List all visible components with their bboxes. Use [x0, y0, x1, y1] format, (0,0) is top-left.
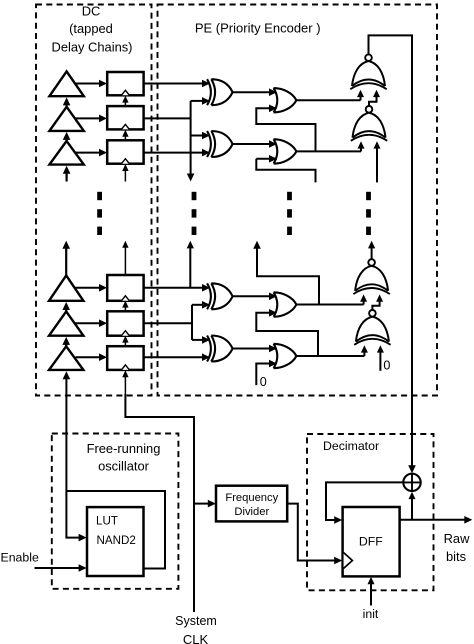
wire N3 output up to continuation — [368, 241, 375, 259]
svg-text:System: System — [175, 614, 217, 628]
label DC block title — [52, 3, 133, 54]
wire N1 output to decimator xor combiner — [369, 35, 416, 473]
ellipsis continuation dots column 1 (delay chain) — [97, 192, 102, 235]
wire tap D4 to R4 — [76, 284, 108, 292]
label System CLK net — [175, 614, 217, 644]
wire O2 output to N2 input A — [296, 141, 364, 151]
xnor gate N3 — [353, 259, 389, 294]
label Decimator — [323, 439, 379, 453]
wire clock R5 to R4 — [122, 301, 128, 312]
flip-flop register R5 — [107, 311, 143, 335]
wire R1 output to X1 input A — [144, 80, 210, 88]
block PE (priority encoder) dashed box — [158, 5, 438, 396]
wire X1 output to O1 input A — [233, 88, 277, 96]
label LUT NAND2 — [96, 514, 136, 547]
svg-text:DFF: DFF — [359, 534, 383, 548]
xor gate X1 — [207, 79, 233, 105]
wire X2 output to O2 input A — [233, 140, 277, 148]
wire tap D2 to R2 — [76, 115, 108, 123]
buffer D6 (delay element) — [49, 346, 83, 370]
wire D4 output up to continuation — [62, 241, 70, 276]
clock marker on DFF — [344, 553, 353, 569]
or gate O2 — [274, 139, 297, 163]
xnor gate N2 — [351, 106, 387, 141]
svg-text:Frequency: Frequency — [225, 492, 278, 504]
flip-flop register R4 — [107, 275, 143, 301]
wire input to D3 from below (continuation) — [63, 166, 71, 182]
xor gate X3 — [207, 283, 233, 309]
wire N4 output to N3 input B — [372, 294, 383, 310]
buffer D5 (delay element) — [49, 311, 83, 335]
svg-text:init: init — [363, 607, 379, 621]
svg-text:Decimator: Decimator — [323, 439, 379, 453]
wire D2 output to D1 input — [63, 97, 71, 106]
wire R3 output to X2 input B — [144, 149, 210, 157]
ellipsis continuation dots column 3 (or chain) — [287, 192, 292, 235]
or gate O4 — [274, 344, 297, 368]
xor gate X4 — [207, 336, 233, 362]
label constant 0 at N4 — [383, 359, 390, 373]
svg-text:CLK: CLK — [183, 632, 209, 644]
wire X4 output to O4 input A — [233, 345, 277, 353]
xnor gate N4 — [354, 310, 390, 345]
flip-flop register R2 — [107, 106, 143, 129]
buffer D1 (delay element) — [49, 71, 83, 96]
wire tap D5 to R5 — [76, 319, 108, 327]
label Enable input net — [1, 550, 39, 564]
label DFF — [359, 534, 383, 548]
wire R5 output tap vertical — [144, 301, 210, 344]
svg-text:Raw: Raw — [444, 531, 470, 546]
wire DFF output feedback up into xor combiner — [409, 492, 416, 520]
wire clock R3 to R2 — [122, 130, 128, 141]
svg-text:PE (Priority Encoder ): PE (Priority Encoder ) — [195, 20, 321, 35]
svg-text:0: 0 — [260, 375, 267, 389]
wire O3 output branch up to continuation — [253, 241, 319, 305]
wire D6 output to D5 input — [62, 337, 70, 346]
or gate O3 — [274, 292, 297, 316]
wire R4 output to X3 input A and up continuation — [144, 241, 210, 292]
svg-text:LUT: LUT — [96, 514, 118, 527]
wire clock R2 to R1 — [122, 96, 128, 107]
dff U2 box — [343, 507, 400, 576]
svg-text:NAND2: NAND2 — [97, 534, 136, 547]
buffer D3 (delay element) — [49, 141, 83, 165]
label free-running oscillator — [87, 441, 161, 473]
wire tap D3 to R3 — [76, 149, 108, 157]
label Raw bits output net — [444, 531, 470, 564]
wire tap D6 to R6 — [76, 353, 108, 361]
wire O4 output to N4 input A — [296, 345, 368, 356]
block free-running oscillator dashed box — [52, 434, 179, 589]
wire enable input to NAND2 — [35, 564, 87, 572]
flip-flop register R3 — [107, 140, 143, 163]
wire O1 output to N1 input A — [296, 90, 364, 101]
buffer D4 (delay element) — [49, 275, 83, 300]
wire N2 output to N1 input B — [369, 90, 380, 106]
wire O3 output to N3 input A — [296, 294, 367, 304]
wire clock into R3 from below (continuation) — [122, 164, 128, 182]
wire X3 output to O3 input A — [233, 293, 277, 301]
label init net — [363, 607, 379, 621]
wire O2 input B from continuation below — [256, 155, 315, 182]
wire system clock to register clock chain — [125, 394, 194, 612]
wire clock into R4 from continuation above — [122, 241, 128, 275]
svg-text:Delay Chains): Delay Chains) — [52, 39, 133, 54]
wire clock into R6 from system clock line — [122, 370, 128, 394]
or gate O1 — [274, 88, 297, 112]
label constant 0 at O4 — [260, 375, 267, 389]
block frequency divider FD1 — [216, 486, 287, 522]
wire tap D1 to R1 — [76, 80, 108, 88]
wire NAND2 feedback loop and oscillator output to delay chain — [63, 371, 165, 568]
wire frequency divider output to DFF clock — [287, 504, 342, 565]
xnor gate N1 — [350, 54, 386, 89]
svg-text:(tapped: (tapped — [69, 21, 113, 36]
label Frequency Divider — [225, 492, 278, 518]
svg-text:0: 0 — [383, 359, 390, 373]
svg-text:Divider: Divider — [234, 506, 269, 518]
constant 0 into N4 input B — [377, 345, 384, 371]
block DC (tapped delay chains) dashed box — [36, 5, 152, 396]
wire O2 output branch to O1 input B — [256, 105, 315, 152]
wire xor combiner output to DFF D input — [326, 482, 403, 523]
lut U1 LUT NAND2 box — [87, 507, 144, 576]
flip-flop register R6 — [107, 346, 143, 370]
block decimator dashed box — [307, 434, 434, 590]
wire DFF output to raw bits and feedback junction — [400, 516, 473, 524]
wire clock R6 to R5 — [122, 336, 128, 347]
wire D3 output to D2 input — [63, 132, 71, 141]
constant 0 into O4 input B — [256, 360, 277, 385]
svg-text:Free-running: Free-running — [87, 441, 161, 456]
ellipsis continuation dots column 4 (xnor chain) — [366, 192, 371, 235]
wire N2 input B from continuation below — [374, 141, 381, 182]
svg-text:bits: bits — [446, 549, 466, 564]
wire init input into DFF — [368, 577, 375, 606]
ellipsis continuation dots column 2 (taps) — [192, 192, 197, 235]
wire R2 output tap vertical — [144, 97, 210, 181]
svg-text:DC: DC — [82, 3, 101, 18]
wire O4 output branch to O3 input B — [256, 309, 318, 356]
buffer D2 (delay element) — [49, 107, 83, 131]
svg-text:Enable: Enable — [1, 550, 39, 564]
xor gate X2 — [207, 131, 233, 157]
xor combiner XC1 (circle plus) — [403, 474, 420, 491]
flip-flop register R1 — [107, 72, 143, 95]
label PE block title — [195, 20, 321, 35]
wire R6 output to X4 input B — [144, 353, 210, 361]
svg-text:oscillator: oscillator — [98, 458, 150, 473]
wire system clock into frequency divider — [194, 500, 216, 508]
wire D5 output to D4 input — [62, 302, 70, 311]
